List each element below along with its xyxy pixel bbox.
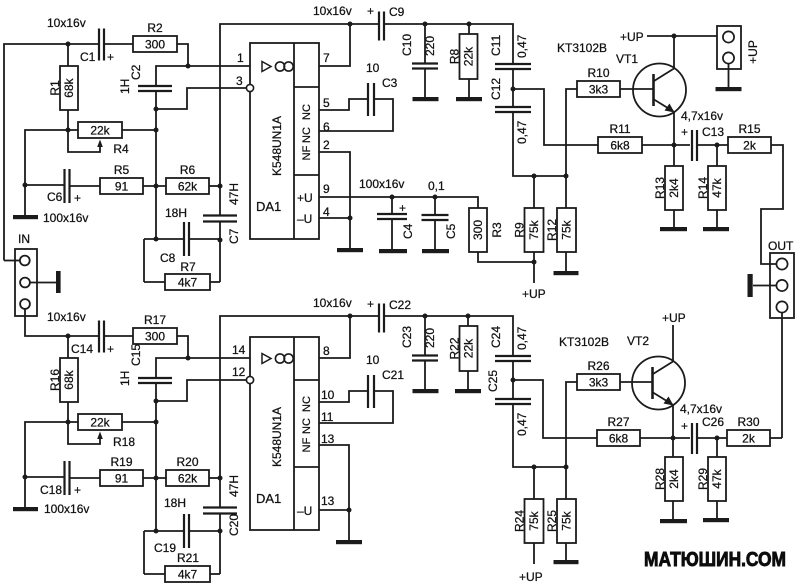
svg-text:10: 10 [366, 353, 380, 367]
svg-text:R2: R2 [147, 21, 163, 35]
wire: ground stem below C18 node [24, 477, 26, 507]
wire: C14 to R17 [104, 335, 133, 337]
svg-text:22k: 22k [462, 338, 476, 358]
wire: C20 bottom to R21 loop [219, 514, 221, 574]
svg-text:R26: R26 [587, 359, 609, 373]
svg-text:NF: NF [301, 145, 313, 160]
svg-text:R3: R3 [490, 222, 504, 238]
resistor R12 [545, 208, 576, 252]
svg-text:+: + [107, 342, 114, 356]
node: pin8/top-rail junction [348, 314, 353, 319]
resistor R9 [513, 208, 544, 252]
wire: C11 bottom [512, 69, 514, 107]
wire: R20 to output column [209, 477, 220, 479]
chassis ground bar at OUT [748, 274, 753, 297]
svg-text:R9: R9 [513, 222, 527, 238]
resistor R22 [448, 326, 478, 371]
wire: pin 1 of DA1 to C2 stem [156, 66, 250, 86]
wire: R17 right down to pin 14 node [177, 336, 188, 358]
svg-text:4k7: 4k7 [178, 276, 198, 290]
wire: OUT pin2 to chassis ground bar [753, 285, 776, 287]
svg-text:0,47: 0,47 [515, 34, 529, 58]
svg-text:3k3: 3k3 [589, 376, 609, 390]
svg-text:C21: C21 [382, 368, 404, 382]
svg-text:22k: 22k [90, 124, 110, 138]
ground under C10 [413, 97, 439, 101]
svg-text:KT3102B: KT3102B [559, 335, 609, 349]
wire: C7 bottom to R7 loop [219, 222, 221, 282]
svg-text:8: 8 [323, 344, 330, 358]
node: pin13 junction [347, 508, 352, 513]
wire: R4 right to feedback column [122, 129, 156, 131]
capacitor C3 10 [366, 61, 398, 116]
svg-text:91: 91 [115, 180, 129, 194]
wire: R2 right down to pin 1 node [177, 44, 188, 66]
capacitor C1 10x16v input coupling [47, 16, 114, 64]
svg-text:22k: 22k [462, 46, 476, 66]
svg-text:14: 14 [232, 343, 246, 357]
svg-text:75k: 75k [527, 510, 541, 530]
wire: pin 3 of DA1 L-wire [156, 88, 246, 109]
wire: +UP rail to power connector [647, 35, 717, 37]
R4 wiper arrow [97, 140, 103, 148]
svg-text:+: + [399, 201, 406, 215]
svg-text:C3: C3 [382, 76, 398, 90]
svg-text:2k: 2k [743, 139, 757, 153]
node: C8 right junction [218, 238, 223, 243]
svg-text:IN: IN [18, 232, 30, 246]
svg-text:75k: 75k [527, 219, 541, 239]
wire: pin 13 NF down to ground [319, 445, 349, 540]
wire: C18 to R19 [70, 477, 100, 479]
wire: pin 4 -U to ground column [319, 217, 350, 219]
node: pin7/top-rail junction [348, 22, 353, 27]
svg-text:4,7x16v: 4,7x16v [681, 109, 723, 123]
node: feedback column bottom junction [154, 237, 159, 242]
wire: VT1 collector to +UP rail [673, 36, 675, 68]
svg-text:100x16v: 100x16v [359, 177, 404, 191]
svg-text:OUT: OUT [768, 239, 794, 253]
svg-text:68k: 68k [62, 369, 76, 389]
capacitor C22 10x16v [367, 297, 411, 333]
wire: C21 to pin 11 [319, 391, 393, 423]
wire: C1 to R2 [104, 43, 133, 45]
node: R19/R20 feedback junction [154, 476, 159, 481]
wire: C6 to R5 [70, 185, 100, 187]
node: C13/R14 junction [715, 143, 720, 148]
wire: R8 stems [468, 24, 470, 34]
transistor VT2 KT3102B [559, 334, 685, 410]
wire: pin 8 output to top rail [319, 316, 350, 358]
svg-text:C20: C20 [227, 514, 241, 536]
svg-text:R29: R29 [696, 468, 710, 490]
wire: R30 right up to OUT pin3 column [770, 437, 782, 439]
resistor R1 [48, 66, 78, 110]
svg-text:220: 220 [423, 328, 437, 348]
svg-text:C6: C6 [47, 190, 63, 204]
wire: R25 stems [565, 467, 567, 499]
svg-text:75k: 75k [560, 219, 574, 239]
svg-text:R28: R28 [653, 468, 667, 490]
wire: pin 2 NF down to ground [319, 152, 350, 248]
wire: IN pin3 to bottom channel input rail [25, 309, 98, 336]
svg-text:18H: 18H [165, 206, 187, 220]
svg-text:100x16v: 100x16v [43, 211, 88, 225]
resistor R14 [696, 166, 726, 210]
node: C26/R29 junction [715, 436, 720, 441]
wire: pin 9 +U rail to R3 [319, 197, 478, 208]
svg-text:10: 10 [321, 388, 335, 402]
capacitor C4 100x16v [377, 197, 415, 249]
svg-text:0,47: 0,47 [515, 120, 529, 144]
svg-text:47k: 47k [710, 468, 724, 488]
capacitor C18 100x16v [40, 461, 89, 516]
svg-text:13: 13 [321, 432, 335, 446]
node: R8 junction [467, 22, 472, 27]
node: R12 top junction [564, 174, 569, 179]
svg-text:C4: C4 [401, 223, 415, 239]
wire: C12 bottom to divider rail [513, 112, 566, 176]
node: C18/ground junction [23, 475, 28, 480]
svg-text:10: 10 [366, 61, 380, 75]
svg-text:+: + [681, 125, 688, 139]
svg-text:KT3102B: KT3102B [557, 41, 607, 55]
node: pin3 tap junction [154, 107, 159, 112]
node: C24/C25 junction [511, 378, 516, 383]
svg-text:C8: C8 [160, 251, 176, 265]
node: R25 top junction [564, 465, 569, 470]
wire: C25 bottom to divider rail [513, 404, 566, 467]
resistor R6 [166, 163, 209, 194]
wire: pin 5 to C3 [319, 99, 368, 110]
node: R3/R9 bottom junction [532, 260, 537, 265]
node: R24 top junction [532, 465, 537, 470]
wire: R4 row left with corner down to C6 node [25, 130, 78, 185]
node: pin12 tap junction [154, 399, 159, 404]
wire: C18 row left segment [25, 476, 64, 478]
ground under R14 [703, 227, 729, 231]
wire: loop bottom branches [144, 573, 165, 575]
resistor R3 [469, 208, 504, 252]
svg-text:C12: C12 [489, 78, 503, 100]
svg-text:10x16v: 10x16v [47, 310, 86, 324]
wire: IN pin1 to left rail [4, 260, 20, 262]
wire: R28 stems [672, 438, 674, 457]
resistor R11 [598, 122, 642, 153]
wire: C26 to R30 [697, 437, 727, 439]
wire: C8 loop top branch [144, 238, 184, 240]
node: C6/ground junction [23, 183, 28, 188]
ground under R8 [456, 97, 482, 101]
svg-text:R19: R19 [110, 455, 132, 469]
resistor R8 [448, 34, 478, 79]
svg-text:DA1: DA1 [256, 199, 281, 214]
capacitor C7 47H [203, 183, 241, 244]
ground under power connector [716, 87, 742, 91]
wire: pin 13 -U to ground column [319, 509, 349, 511]
wire: input top rail from IN pin1 up and right to C1 [4, 44, 98, 261]
svg-text:R7: R7 [180, 260, 196, 274]
svg-text:R5: R5 [114, 163, 130, 177]
svg-text:R30: R30 [737, 415, 759, 429]
wire: IN pin2 to chassis ground bar [30, 282, 56, 284]
svg-text:+: + [367, 4, 374, 18]
svg-text:C11: C11 [489, 35, 503, 56]
svg-text:NC: NC [301, 104, 313, 120]
svg-text:2k: 2k [742, 432, 756, 446]
resistor R15 [728, 122, 771, 153]
wire: C6 row left segment [25, 184, 64, 186]
svg-text:C10: C10 [400, 34, 414, 56]
svg-text:300: 300 [145, 330, 165, 344]
svg-text:12: 12 [232, 365, 246, 379]
wire: R22 stems [467, 316, 469, 326]
ground under C4 [379, 249, 407, 253]
svg-text:МАТЮШИН.СОМ: МАТЮШИН.СОМ [644, 549, 786, 571]
wire: R5 to R6 [143, 185, 166, 187]
wire: C19/R21 loop left side [143, 531, 145, 574]
svg-text:3k3: 3k3 [589, 83, 609, 97]
wire: C15 bottom down feedback column [155, 383, 157, 531]
resistor R27 [597, 415, 640, 446]
svg-text:R13: R13 [653, 177, 667, 199]
svg-text:C9: C9 [389, 5, 405, 19]
svg-text:R22: R22 [448, 337, 462, 359]
svg-text:1: 1 [237, 51, 244, 65]
svg-text:R11: R11 [609, 122, 630, 136]
svg-text:91: 91 [115, 472, 129, 486]
node: R16 bottom junction [66, 420, 71, 425]
wire: C19 loop top branch [144, 530, 184, 532]
capacitor C15 1H feedback [118, 344, 172, 386]
svg-text:+UP: +UP [522, 287, 546, 301]
svg-text:R25: R25 [545, 510, 559, 532]
svg-text:R18: R18 [113, 435, 135, 449]
svg-text:4: 4 [323, 205, 330, 219]
svg-text:13: 13 [321, 494, 335, 508]
wire: R29 stems [716, 438, 718, 457]
svg-text:+: + [74, 191, 81, 205]
capacitor C13 4,7x16v [681, 109, 724, 161]
capacitor C2 1H feedback [118, 64, 172, 94]
svg-text:C5: C5 [444, 223, 458, 239]
capacitor C26 4,7x16v [680, 402, 724, 454]
ground under C23 [413, 389, 439, 393]
wire: top rail C9 to C11 corner [385, 24, 513, 64]
ground under R28 [660, 519, 687, 523]
svg-text:C7: C7 [227, 228, 241, 244]
resistor R10 [577, 66, 620, 97]
wire: output feedback column x220 and top rail to C22 [220, 316, 378, 507]
wire: C24 node to R27 [513, 380, 597, 438]
svg-text:R6: R6 [180, 163, 196, 177]
node: R1 bottom junction [66, 128, 71, 133]
svg-text:7: 7 [323, 51, 330, 65]
resistor R17 [133, 313, 177, 344]
svg-text:R24: R24 [513, 510, 527, 532]
wire: R3 bottom to R9 bottom [478, 252, 534, 262]
capacitor C6 100x16v [43, 169, 88, 225]
svg-text:47k: 47k [710, 177, 724, 197]
wire: R6 to output column [209, 185, 220, 187]
resistor R7 [165, 260, 210, 290]
svg-text:R8: R8 [448, 49, 462, 65]
ground under R25 [554, 560, 579, 564]
node: junction R1 top on input rail [66, 42, 71, 47]
wire: R11 output row right side [642, 144, 690, 146]
svg-text:C22: C22 [389, 298, 411, 312]
wire: output feedback column x220 and top rail to C9 [220, 24, 378, 215]
wire: C24 bottom [512, 361, 514, 398]
resistor R30 [727, 415, 770, 446]
resistor R18 [78, 414, 135, 449]
svg-text:22k: 22k [90, 416, 110, 430]
svg-text:47H: 47H [227, 475, 241, 497]
connector OUT [768, 239, 794, 318]
svg-text:R14: R14 [696, 177, 710, 199]
svg-text:C23: C23 [400, 326, 414, 348]
svg-text:4k7: 4k7 [178, 568, 198, 582]
wire: C11 node to R11 [513, 89, 598, 145]
ground under DA1 bottom half [336, 540, 362, 544]
ground under R13 [660, 227, 687, 231]
svg-text:75k: 75k [560, 510, 574, 530]
resistor R26 [577, 359, 620, 390]
svg-text:+: + [681, 419, 688, 433]
wire: pin 14 of DA1 to C15 stem [156, 358, 250, 378]
svg-text:VT1: VT1 [616, 52, 638, 66]
resistor R24 [513, 499, 544, 543]
svg-text:NC: NC [301, 127, 313, 143]
resistor R21 [165, 551, 210, 582]
wire: R18 wiper return [68, 422, 100, 444]
svg-text:C14: C14 [71, 342, 93, 356]
connector IN [15, 232, 37, 316]
svg-text:300: 300 [145, 38, 165, 52]
node: R6 right junction on output column [218, 184, 223, 189]
node: C10 junction [423, 22, 428, 27]
pin 3 input circle [246, 84, 253, 91]
wire: pin 7 output to top rail [319, 24, 350, 66]
capacitor C14 10x16v [47, 310, 114, 356]
svg-text:R4: R4 [113, 142, 129, 156]
svg-text:C26: C26 [702, 415, 724, 429]
R18 wiper arrow [97, 432, 103, 440]
capacitor C9 10x16v [367, 4, 405, 41]
svg-text:R15: R15 [738, 122, 760, 136]
wire: ground stem below C6 node [24, 185, 26, 215]
svg-text:C25: C25 [486, 370, 500, 392]
wire: C3 to pin 6 [319, 99, 393, 131]
resistor R25 [545, 499, 576, 543]
svg-text:+UP: +UP [662, 311, 686, 325]
ground under R22 [455, 389, 481, 393]
svg-text:2: 2 [323, 138, 330, 152]
wire: C13 to R15 [697, 144, 728, 146]
node: R5/R6 feedback junction [154, 184, 159, 189]
ground under C5 [422, 249, 449, 253]
node: R4 right junction [154, 128, 159, 133]
wire: OUT pin3 down to R30 [781, 313, 783, 438]
svg-text:–U: –U [297, 504, 312, 518]
wire: loop bottom branches [144, 281, 165, 283]
capacitor C12 0,47 [489, 78, 531, 144]
resistor R29 [696, 457, 726, 501]
svg-text:2k4: 2k4 [667, 178, 681, 198]
wire: R1 top stem [67, 44, 69, 66]
node: C5 junction [433, 195, 438, 200]
node: C23 junction [423, 314, 428, 319]
svg-text:9: 9 [323, 182, 330, 196]
wire: power connector pin2 to ground [728, 64, 730, 87]
resistor R16 [48, 358, 78, 402]
svg-text:2k4: 2k4 [667, 469, 681, 489]
svg-text:+: + [74, 483, 81, 497]
svg-text:220: 220 [423, 36, 437, 56]
svg-text:C18: C18 [40, 483, 62, 497]
wire: R1 bottom stem [67, 110, 69, 130]
svg-text:3: 3 [236, 74, 243, 88]
svg-text:R10: R10 [587, 66, 609, 80]
capacitor C25 0,47 [486, 370, 531, 436]
wire: R14 stems [716, 145, 718, 166]
svg-text:+U: +U [297, 191, 313, 205]
node: R20 right junction [218, 476, 223, 481]
capacitor C11 0,47 [489, 34, 531, 69]
capacitor C20 47H [203, 475, 241, 536]
wire: R15 to OUT pin 1 [761, 145, 783, 264]
wire: R13 stems [673, 145, 675, 166]
node: emitter/R13 junction [672, 143, 677, 148]
op-amp U DA1 K548UN1A bottom half [250, 337, 319, 530]
svg-text:+: + [367, 297, 374, 311]
wire: VT2 emitter stem [672, 405, 674, 438]
svg-text:R21: R21 [177, 551, 199, 565]
transistor VT1 KT3102B [557, 41, 686, 117]
wire: R18 row left with corner down to C18 node [25, 422, 78, 477]
wire: top rail C22 to C24 corner [385, 316, 513, 356]
wire: pin 10 to C21 [319, 391, 368, 402]
wire: VT1 emitter stem [673, 112, 675, 145]
capacitor C23 220 [400, 316, 438, 389]
wire: R12 stems [565, 176, 567, 208]
node: feedback column bottom junction [154, 529, 159, 534]
wire: R10 left down to divider rail [566, 89, 577, 176]
svg-text:1H: 1H [118, 79, 132, 94]
svg-text:NC: NC [301, 396, 313, 412]
wire: R18 right to feedback column [122, 421, 156, 423]
wire: R26 to VT2 base [620, 381, 652, 383]
wire: R9 stems [533, 176, 535, 208]
resistor R20 [166, 455, 209, 486]
wire: pin 12 of DA1 L-wire [156, 380, 246, 401]
svg-text:C24: C24 [489, 326, 503, 348]
node: C4 junction [390, 195, 395, 200]
connector XS +UP power [717, 26, 760, 69]
svg-text:+: + [107, 50, 114, 64]
ground under C6 node [13, 215, 38, 219]
ground under R12 [554, 271, 579, 275]
wire: R16 stems [67, 336, 69, 358]
svg-text:100x16v: 100x16v [44, 502, 89, 516]
ground under R29 [703, 518, 729, 522]
resistor R19 [100, 455, 143, 486]
svg-text:K548UN1A: K548UN1A [270, 116, 284, 176]
wire: R10 to VT1 base [620, 88, 653, 90]
svg-text:0,1: 0,1 [428, 179, 445, 193]
resistor R4 [78, 122, 129, 156]
capacitor C21 10 [366, 353, 404, 408]
